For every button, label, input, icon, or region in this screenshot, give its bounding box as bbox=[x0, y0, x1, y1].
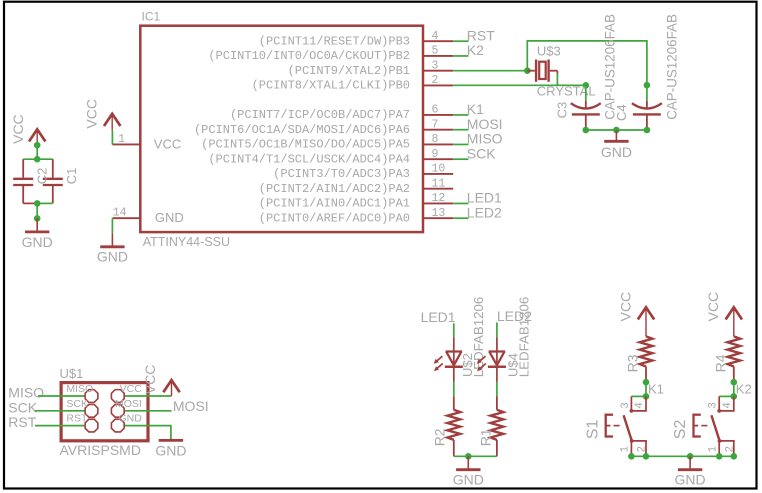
svg-text:11: 11 bbox=[432, 177, 446, 190]
junction node C4 bottom bbox=[644, 127, 651, 134]
junction node C3 top bbox=[583, 82, 590, 89]
wire pin1 to VCC bbox=[111, 130, 113, 144]
svg-text:2: 2 bbox=[637, 446, 649, 453]
R3 bottom pin bbox=[645, 367, 647, 383]
junction node gnd stem bbox=[34, 215, 41, 222]
wire LED1 to R2 bbox=[453, 382, 455, 397]
svg-text:SCK: SCK bbox=[66, 398, 88, 410]
svg-text:R1: R1 bbox=[478, 428, 494, 446]
svg-text:LED1: LED1 bbox=[421, 309, 456, 325]
svg-text:4: 4 bbox=[432, 30, 439, 43]
svg-text:C1: C1 bbox=[64, 168, 79, 185]
svg-text:U$3: U$3 bbox=[537, 44, 561, 59]
wire SCK to pad bbox=[35, 410, 85, 412]
svg-text:IC1: IC1 bbox=[142, 10, 161, 24]
svg-text:K2: K2 bbox=[736, 381, 752, 396]
capacitor C4 bbox=[632, 85, 662, 130]
svg-text:(PCINT11/RESET/DW)PB3: (PCINT11/RESET/DW)PB3 bbox=[259, 34, 410, 48]
IC1 pin 14 stub bbox=[112, 217, 140, 219]
resistor R1 bbox=[491, 410, 504, 440]
wire pin3 (PB1) to crystal bbox=[453, 70, 527, 72]
resistor R2 bbox=[447, 410, 460, 440]
crystal U$3 bbox=[527, 60, 557, 82]
junction node switch gnd tap bbox=[687, 453, 694, 460]
svg-text:R3: R3 bbox=[625, 354, 641, 372]
svg-text:13: 13 bbox=[432, 207, 446, 220]
svg-text:5: 5 bbox=[432, 45, 439, 58]
switch S1 bbox=[606, 396, 646, 456]
power VCC symbol (U$1) bbox=[163, 380, 179, 392]
power VCC symbol (C1 block) bbox=[29, 129, 45, 141]
wire crystal right down to PB0 net bbox=[556, 74, 558, 86]
junction node S2 pin2 bbox=[731, 453, 738, 460]
R1 bottom pin bbox=[496, 440, 498, 456]
VCC symbol stem (C1 block) bbox=[36, 129, 38, 145]
svg-text:3: 3 bbox=[432, 59, 439, 72]
junction node gnd tap bbox=[613, 127, 620, 134]
wire to GND bbox=[36, 203, 38, 218]
capacitor C2 bbox=[13, 159, 33, 203]
capacitor C3 bbox=[571, 85, 601, 130]
LED U$4 bbox=[488, 337, 506, 382]
svg-text:K1: K1 bbox=[648, 381, 664, 396]
VCC symbol stem (R4) bbox=[733, 307, 735, 336]
junction node PB1/crystal bbox=[524, 67, 531, 74]
svg-text:CAP-US1206FAB: CAP-US1206FAB bbox=[603, 14, 618, 120]
U$1 pad MOSI bbox=[111, 404, 124, 417]
switch S2 bbox=[694, 396, 734, 456]
wire net RST from pin 4 bbox=[453, 40, 468, 42]
power VCC symbol (pin 1) bbox=[104, 114, 120, 126]
svg-text:6: 6 bbox=[432, 104, 439, 117]
svg-text:LED1: LED1 bbox=[467, 190, 502, 206]
wire K2 bbox=[733, 382, 735, 396]
junction node C4 top bbox=[644, 82, 651, 89]
wire MOSI pad right bbox=[125, 410, 172, 412]
wire C3 bottom to C4 bottom bbox=[586, 129, 647, 131]
U$1 pad MISO bbox=[85, 390, 98, 403]
svg-text:1: 1 bbox=[620, 446, 632, 453]
ground GND symbol (switch block) bbox=[675, 456, 706, 487]
svg-text:GND: GND bbox=[453, 472, 484, 488]
wire R2/R1 bottoms bbox=[454, 455, 497, 457]
wire net LED2 from pin 13 bbox=[453, 217, 468, 219]
wire RST to pad bbox=[35, 425, 85, 427]
junction node K2/switch bbox=[731, 393, 738, 400]
svg-text:(PCINT0/AREF/ADC0)PA0: (PCINT0/AREF/ADC0)PA0 bbox=[259, 211, 410, 225]
svg-text:4: 4 bbox=[634, 402, 646, 409]
VCC symbol stem (R3) bbox=[645, 307, 647, 336]
svg-text:(PCINT7/ICP/OC0B/ADC7)PA7: (PCINT7/ICP/OC0B/ADC7)PA7 bbox=[230, 108, 410, 122]
ground GND symbol (LED block) bbox=[453, 456, 484, 487]
junction node VCC stem bbox=[34, 142, 41, 149]
svg-text:SCK: SCK bbox=[467, 145, 496, 161]
wire cap bottom rail right bbox=[37, 202, 53, 204]
wire net K2 from pin 5 bbox=[453, 55, 468, 57]
wire net K1 from pin 6 bbox=[453, 114, 468, 116]
svg-text:VCC: VCC bbox=[10, 114, 26, 144]
U$1 pad VCC bbox=[111, 390, 124, 403]
power VCC symbol (R4) bbox=[726, 307, 742, 319]
capacitor C1 bbox=[43, 159, 63, 203]
svg-text:K1: K1 bbox=[467, 101, 484, 117]
svg-text:1: 1 bbox=[707, 446, 719, 453]
power VCC symbol (R3) bbox=[638, 307, 654, 319]
svg-text:CRYSTAL: CRYSTAL bbox=[537, 84, 596, 99]
wire cap top rail bbox=[23, 158, 53, 160]
svg-text:VCC: VCC bbox=[83, 99, 99, 129]
svg-text:2: 2 bbox=[724, 446, 736, 453]
wire LED2 net bbox=[496, 323, 498, 338]
svg-text:(PCINT2/AIN1/ADC2)PA2: (PCINT2/AIN1/ADC2)PA2 bbox=[259, 182, 410, 196]
wire LED1 net bbox=[453, 323, 455, 337]
svg-text:GND: GND bbox=[675, 472, 706, 488]
R4 bottom pin bbox=[733, 367, 735, 383]
IC1 pin 7 stub bbox=[423, 129, 453, 131]
junction node cap bottom bbox=[34, 200, 41, 207]
svg-text:14: 14 bbox=[113, 207, 127, 220]
connector U$1 AVRISPSMD body bbox=[61, 383, 148, 441]
IC1 pin 6 stub bbox=[423, 114, 453, 116]
svg-text:(PCINT1/AIN0/ADC1)PA1: (PCINT1/AIN0/ADC1)PA1 bbox=[259, 197, 410, 211]
svg-text:MOSI: MOSI bbox=[115, 398, 142, 410]
wire VCC pad right bbox=[125, 395, 172, 397]
LED U$4 light arrows bbox=[477, 356, 486, 371]
wire net LED1 from pin 12 bbox=[453, 202, 468, 204]
svg-text:2: 2 bbox=[432, 74, 439, 87]
svg-text:(PCINT8/XTAL1/CLKI)PB0: (PCINT8/XTAL1/CLKI)PB0 bbox=[252, 79, 410, 93]
svg-text:VCC: VCC bbox=[120, 383, 143, 395]
LED U$2 light arrows bbox=[434, 356, 443, 371]
svg-text:(PCINT10/INT0/OC0A/CKOUT)PB2: (PCINT10/INT0/OC0A/CKOUT)PB2 bbox=[208, 49, 410, 63]
svg-text:4: 4 bbox=[722, 402, 734, 409]
R1 top pin bbox=[496, 397, 498, 410]
svg-text:(PCINT5/OC1B/MISO/DO/ADC5)PA5: (PCINT5/OC1B/MISO/DO/ADC5)PA5 bbox=[201, 138, 410, 152]
svg-text:LEDFAB1206: LEDFAB1206 bbox=[517, 297, 532, 378]
wire switch pins 3-4 bbox=[719, 395, 734, 397]
svg-text:VCC: VCC bbox=[617, 292, 633, 322]
svg-text:CAP-US1206FAB: CAP-US1206FAB bbox=[664, 14, 679, 120]
wire K1 bbox=[645, 382, 647, 396]
ground GND symbol (C1 block) bbox=[22, 218, 53, 249]
IC1 pin 12 stub bbox=[423, 202, 453, 204]
junction node R3/K1 bbox=[643, 379, 650, 386]
junction node S1 pin2 bbox=[643, 453, 650, 460]
svg-text:7: 7 bbox=[432, 118, 439, 131]
svg-text:C4: C4 bbox=[614, 104, 629, 121]
IC1 pin 13 stub bbox=[423, 217, 453, 219]
svg-text:R2: R2 bbox=[432, 428, 448, 446]
svg-text:GND: GND bbox=[601, 144, 632, 160]
svg-text:MOSI: MOSI bbox=[173, 398, 209, 414]
svg-text:GND: GND bbox=[155, 442, 186, 458]
svg-text:C3: C3 bbox=[554, 102, 569, 119]
junction node S1 pin1 bbox=[628, 453, 635, 460]
wire switch pins 3-4 bbox=[631, 395, 646, 397]
svg-text:ATTINY44-SSU: ATTINY44-SSU bbox=[143, 235, 230, 249]
svg-text:GND: GND bbox=[22, 234, 53, 250]
wire pin2 (PB0) to C3 bbox=[453, 84, 586, 86]
svg-text:8: 8 bbox=[432, 133, 439, 146]
wire cap bottom rail left bbox=[23, 202, 37, 204]
svg-text:(PCINT4/T1/SCL/USCK/ADC4)PA4: (PCINT4/T1/SCL/USCK/ADC4)PA4 bbox=[208, 152, 410, 166]
svg-text:9: 9 bbox=[432, 148, 439, 161]
svg-text:RST: RST bbox=[8, 414, 36, 430]
wire net MISO from pin 8 bbox=[453, 143, 468, 145]
R2 top pin bbox=[453, 397, 455, 410]
wire switch commons to GND bbox=[631, 455, 733, 457]
junction node R4/K2 bbox=[731, 379, 738, 386]
svg-text:VCC: VCC bbox=[142, 365, 158, 395]
svg-text:S2: S2 bbox=[672, 420, 689, 440]
junction node S2 pin1 bbox=[716, 453, 723, 460]
wire pin14 to GND bbox=[111, 218, 113, 233]
wire VCC down bbox=[36, 145, 38, 159]
svg-text:VCC: VCC bbox=[705, 292, 721, 322]
svg-text:RST: RST bbox=[66, 413, 88, 425]
svg-text:AVRISPSMD: AVRISPSMD bbox=[60, 442, 141, 458]
U$1 pad RST bbox=[85, 419, 98, 432]
IC1 pin 3 stub bbox=[423, 70, 453, 72]
VCC symbol stem (U$1) bbox=[171, 380, 173, 396]
junction node C3 bottom bbox=[583, 127, 590, 134]
svg-text:RST: RST bbox=[467, 27, 495, 43]
IC1 pin 4 stub bbox=[423, 40, 453, 42]
IC1 pin 1 stub bbox=[112, 143, 140, 145]
svg-text:MISO: MISO bbox=[467, 131, 503, 147]
svg-text:SCK: SCK bbox=[8, 399, 37, 415]
IC1 pin 11 stub bbox=[423, 188, 453, 190]
svg-text:(PCINT3/T0/ADC3)PA3: (PCINT3/T0/ADC3)PA3 bbox=[273, 167, 410, 181]
U$1 pad GND bbox=[111, 419, 124, 432]
IC1 pin 10 stub bbox=[423, 173, 453, 175]
svg-text:3: 3 bbox=[708, 402, 720, 409]
svg-text:12: 12 bbox=[432, 192, 446, 205]
LED U$2 bbox=[445, 337, 463, 382]
resistor R4 bbox=[727, 336, 740, 366]
svg-text:S1: S1 bbox=[584, 420, 601, 440]
svg-text:(PCINT6/OC1A/SDA/MOSI/ADC6)PA6: (PCINT6/OC1A/SDA/MOSI/ADC6)PA6 bbox=[194, 123, 410, 137]
junction node LED gnd bbox=[465, 453, 472, 460]
wire GND pad right bbox=[125, 426, 171, 438]
U$1 pad SCK bbox=[85, 404, 98, 417]
svg-text:K2: K2 bbox=[467, 42, 484, 58]
wire net SCK from pin 9 bbox=[453, 158, 468, 160]
wire PB1 over the top to C4 bbox=[527, 41, 647, 85]
VCC symbol stem (pin1) bbox=[111, 114, 113, 131]
svg-text:MOSI: MOSI bbox=[467, 116, 503, 132]
R2 bottom pin bbox=[453, 440, 455, 456]
IC1 pin 5 stub bbox=[423, 55, 453, 57]
svg-text:U$1: U$1 bbox=[60, 366, 84, 381]
svg-text:C2: C2 bbox=[35, 168, 50, 185]
svg-text:MISO: MISO bbox=[66, 383, 93, 395]
svg-text:R4: R4 bbox=[712, 354, 728, 372]
svg-text:10: 10 bbox=[432, 163, 446, 176]
svg-text:MISO: MISO bbox=[8, 385, 44, 401]
wire LED2 to R1 bbox=[496, 382, 498, 397]
ground GND symbol (U$1) bbox=[155, 438, 186, 458]
ground GND symbol (pin 14) bbox=[97, 233, 128, 265]
svg-text:VCC: VCC bbox=[154, 136, 181, 151]
wire MISO to pad bbox=[38, 395, 85, 397]
IC IC1 body rectangle bbox=[140, 26, 423, 232]
svg-text:GND: GND bbox=[97, 249, 128, 265]
IC1 pin 2 stub bbox=[423, 84, 453, 86]
resistor R3 bbox=[640, 336, 653, 366]
IC1 pin 8 stub bbox=[423, 143, 453, 145]
svg-text:GND: GND bbox=[118, 413, 142, 425]
svg-text:1: 1 bbox=[118, 133, 125, 146]
IC1 pin 9 stub bbox=[423, 158, 453, 160]
svg-text:3: 3 bbox=[620, 402, 632, 409]
junction node K1/switch bbox=[643, 393, 650, 400]
svg-text:LED2: LED2 bbox=[467, 204, 502, 220]
junction node cap top bbox=[34, 156, 41, 163]
ground GND symbol (crystal caps) bbox=[601, 130, 632, 160]
svg-text:GND: GND bbox=[155, 210, 184, 225]
wire net MOSI from pin 7 bbox=[453, 129, 468, 131]
svg-text:(PCINT9/XTAL2)PB1: (PCINT9/XTAL2)PB1 bbox=[288, 64, 410, 78]
